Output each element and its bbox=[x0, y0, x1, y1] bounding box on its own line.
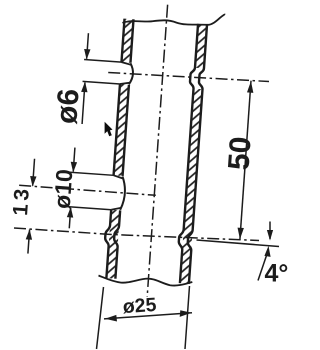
ø25 dimension arrowhead right bbox=[180, 310, 192, 317]
ø6 dimension line bbox=[82, 33, 88, 124]
ø6 hole lip edges on left wall bbox=[120, 62, 131, 85]
left wall outer contour (with lower hole jog) bbox=[102, 18, 124, 278]
ø6 dimension arrowhead upper bbox=[83, 49, 90, 60]
hole axis, upper ø6 hole (dash-dot) bbox=[108, 70, 269, 83]
ø6 hole far-side bulge in left wall bbox=[129, 63, 134, 84]
4-deg angle arrowhead upper bbox=[267, 230, 273, 241]
bottom break line (wavy) bbox=[99, 276, 193, 286]
hole axis, middle ø10 hole (dash-dot) bbox=[19, 185, 156, 195]
svg-text:ø25: ø25 bbox=[122, 294, 157, 318]
right tube wall section hatching bbox=[180, 24, 207, 284]
4-deg angle reference line (solid) bbox=[197, 240, 280, 247]
ø10 dimension arrowhead lower bbox=[67, 207, 74, 218]
ø10 hole lip edges on left wall bbox=[111, 175, 123, 210]
svg-text:ø6: ø6 bbox=[50, 88, 85, 125]
right wall outer contour (with ø6 exit jog and lower hole jog) bbox=[185, 24, 207, 284]
ø10 hole edge extension lines bbox=[59, 172, 114, 210]
50 dimension arrowhead upper bbox=[247, 81, 254, 93]
top break line (wavy) bbox=[122, 15, 225, 25]
ø25 dimension line bbox=[104, 313, 192, 319]
4-deg angle lower leader line bbox=[258, 256, 267, 281]
svg-text:4°: 4° bbox=[265, 260, 289, 288]
4-deg angle arrowhead lower bbox=[264, 246, 270, 257]
ø10 dimension arrowhead upper bbox=[70, 162, 77, 173]
ø6 hole edge extension lines bbox=[83, 59, 122, 84]
lower hole axis / 4-deg reference axis (dash-dot) bbox=[14, 228, 259, 241]
13 dimension line bbox=[28, 159, 35, 254]
svg-text:13: 13 bbox=[9, 185, 34, 217]
ø10 hole far-side bulge in left wall bbox=[120, 176, 126, 210]
50 dimension line bbox=[240, 81, 251, 240]
50 dimension arrowhead lower bbox=[237, 228, 244, 240]
left tube wall section hatching bbox=[106, 19, 133, 279]
svg-text:ø10: ø10 bbox=[49, 168, 78, 209]
left wall inner contour (with lower hole jog) bbox=[111, 19, 133, 279]
ø25 extension lines bbox=[97, 286, 190, 349]
ø10 dimension line bbox=[69, 148, 75, 229]
13 dimension arrowhead lower bbox=[26, 229, 33, 240]
ø25 dimension arrowhead left bbox=[105, 315, 117, 322]
right wall inner contour (with ø6 exit jog and lower hole jog) bbox=[176, 24, 198, 284]
13 dimension arrowhead upper bbox=[29, 176, 36, 187]
tube centerline (vertical dash-dot axis) bbox=[147, 5, 167, 297]
4-deg angle arrow upper tail bbox=[269, 222, 271, 240]
svg-text:50: 50 bbox=[222, 136, 257, 172]
ø6 dimension arrowhead lower bbox=[81, 81, 88, 92]
mouse cursor pointer bbox=[105, 122, 113, 136]
